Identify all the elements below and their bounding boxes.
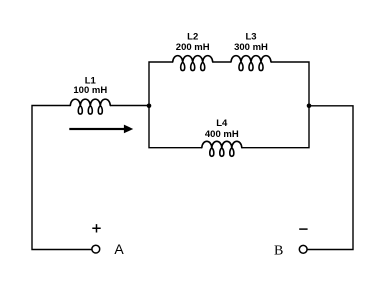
svg-text:100 mH: 100 mH bbox=[73, 85, 107, 96]
svg-text:200 mH: 200 mH bbox=[176, 42, 210, 53]
svg-text:400 mH: 400 mH bbox=[205, 129, 239, 140]
svg-text:L2: L2 bbox=[187, 32, 198, 43]
svg-text:300 mH: 300 mH bbox=[234, 42, 268, 53]
svg-text:L4: L4 bbox=[216, 118, 228, 129]
svg-text:A: A bbox=[114, 241, 124, 257]
svg-text:B: B bbox=[274, 244, 283, 259]
svg-text:L3: L3 bbox=[245, 32, 256, 43]
